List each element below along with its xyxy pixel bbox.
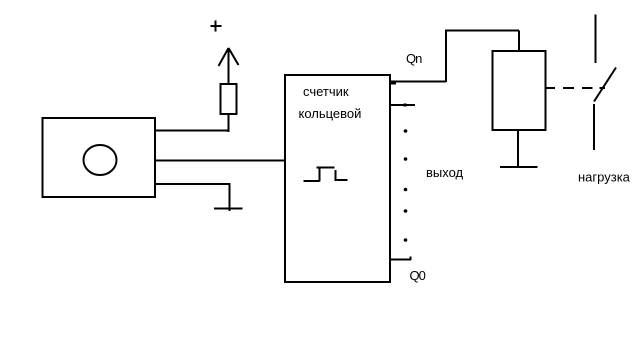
svg-text:Qn: Qn <box>406 51 422 66</box>
svg-text:нагрузка: нагрузка <box>578 170 631 185</box>
svg-text:выход: выход <box>426 165 464 180</box>
svg-text:кольцевой: кольцевой <box>299 106 362 121</box>
svg-text:счетчик: счетчик <box>303 84 349 99</box>
svg-text:Q0: Q0 <box>410 268 426 283</box>
